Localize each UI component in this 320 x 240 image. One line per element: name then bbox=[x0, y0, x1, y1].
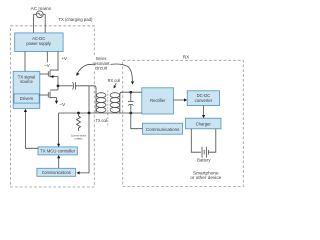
Communications box TX bbox=[37, 168, 76, 176]
wire MCU to TX signal source bbox=[25, 111, 38, 149]
capacitor C1 (series resonant) bbox=[73, 82, 76, 89]
svg-text:–V: –V bbox=[60, 102, 67, 107]
wire tap down to bottom rail bbox=[88, 86, 90, 113]
svg-text:Charger: Charger bbox=[196, 121, 212, 126]
battery B1 bbox=[191, 129, 216, 158]
wire AC mains right lead bbox=[44, 14, 46, 33]
Communications box RX bbox=[142, 123, 182, 134]
wire -V stub bbox=[46, 52, 48, 63]
wire comm link from bottom rail bbox=[78, 113, 89, 173]
arrow to RX coil bbox=[114, 83, 117, 88]
wire AC-DC to TX signal source bbox=[24, 52, 26, 72]
interface dashed line between coils bbox=[107, 91, 109, 128]
node RX cap bottom bbox=[129, 112, 132, 115]
Charger box bbox=[186, 118, 222, 129]
DC-DC converter box bbox=[187, 91, 219, 106]
wire midpoint to capacitor bbox=[58, 85, 73, 87]
svg-text:Communications: Communications bbox=[146, 127, 180, 132]
arrow Communications to MCU bbox=[58, 157, 60, 169]
inductor L1 TX coil bbox=[96, 93, 106, 113]
TX charging pad dashed enclosure bbox=[11, 26, 95, 187]
svg-text:AC mains: AC mains bbox=[31, 6, 52, 11]
inductor L2 RX coil bbox=[110, 93, 120, 113]
arrow rectifier to DC-DC bbox=[173, 99, 185, 101]
arrow to RX capacitor bbox=[111, 64, 135, 85]
svg-text:converter: converter bbox=[195, 98, 213, 103]
wire RX coil bus and top lead bbox=[120, 92, 142, 113]
TX signal source box bbox=[13, 71, 40, 108]
svg-text:RX: RX bbox=[183, 54, 190, 59]
svg-text:RX coil: RX coil bbox=[108, 78, 121, 83]
TX MCU controller box bbox=[38, 147, 77, 155]
AC source V1 bbox=[34, 11, 46, 18]
node resistor junction bbox=[77, 112, 80, 115]
svg-text:resistor: resistor bbox=[75, 138, 83, 141]
svg-text:power supply: power supply bbox=[26, 41, 52, 46]
node comm tap junction bbox=[88, 112, 91, 115]
svg-text:source: source bbox=[20, 79, 33, 84]
AC-DC power supply box bbox=[15, 33, 63, 52]
svg-text:Battery: Battery bbox=[197, 158, 211, 163]
svg-text:–V: –V bbox=[44, 63, 51, 68]
svg-text:or other device: or other device bbox=[190, 175, 221, 180]
wire RX comm to rail bbox=[131, 113, 143, 129]
arrow to TX capacitor bbox=[76, 64, 95, 75]
svg-text:Communications: Communications bbox=[42, 170, 71, 175]
wire bottom rail bbox=[59, 112, 142, 114]
wire sense line to TX MCU bbox=[58, 113, 60, 145]
capacitor C2 RX parallel bbox=[128, 92, 134, 113]
node midpoint junction bbox=[57, 84, 60, 87]
svg-text:TX MCU controller: TX MCU controller bbox=[40, 148, 76, 153]
resistor R1 current sense bbox=[77, 113, 81, 131]
svg-text:Rectifier: Rectifier bbox=[150, 98, 166, 103]
Rectifier box bbox=[142, 88, 174, 114]
node RX cap top bbox=[129, 91, 132, 94]
svg-text:TX coil: TX coil bbox=[96, 118, 108, 123]
wire +V rail bbox=[57, 52, 59, 71]
svg-text:+V: +V bbox=[61, 56, 68, 61]
transistor Q2 (low side) bbox=[39, 90, 58, 104]
svg-text:TX (charging pad): TX (charging pad) bbox=[58, 17, 92, 22]
svg-text:Drivers: Drivers bbox=[20, 96, 33, 101]
RX dashed enclosure bbox=[123, 60, 244, 186]
arrow DC-DC to Charger bbox=[203, 106, 205, 117]
svg-text:circuit: circuit bbox=[95, 65, 108, 70]
wire AC mains left lead bbox=[33, 14, 35, 33]
transistor Q1 (high side) bbox=[40, 70, 58, 78]
wire capacitor to coil bbox=[75, 86, 96, 113]
label Series resonant circuit bbox=[92, 55, 112, 70]
Drivers box bbox=[14, 94, 39, 103]
wire mid rail bbox=[57, 77, 59, 90]
